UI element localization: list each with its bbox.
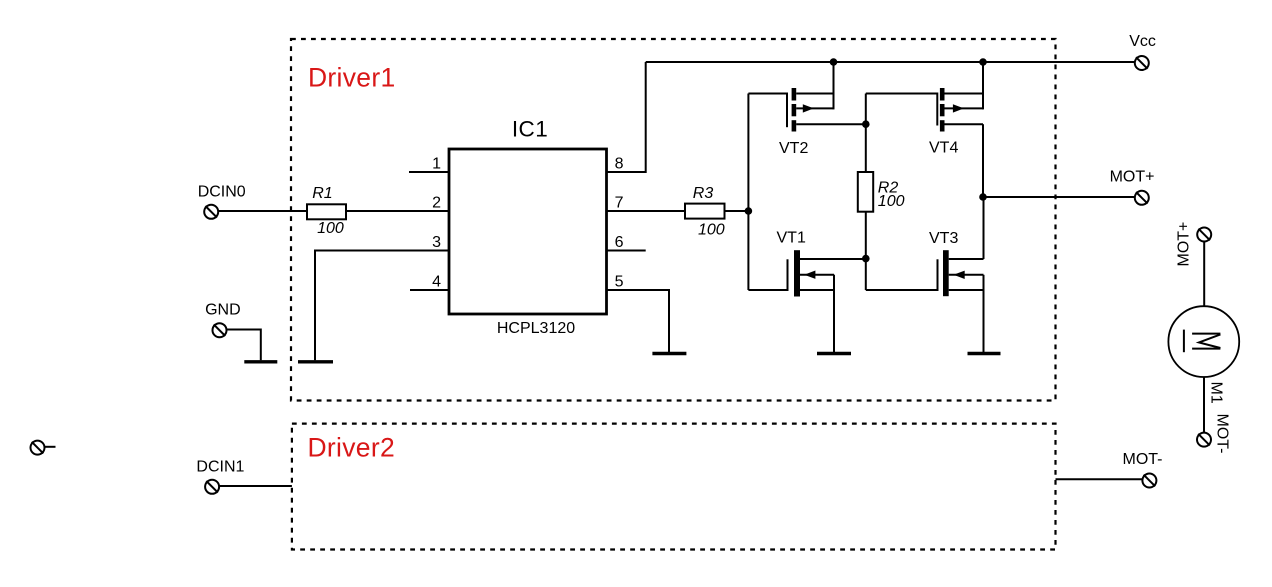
- svg-text:100: 100: [878, 193, 905, 210]
- wire MOT+ output: [983, 196, 1134, 198]
- resistor R1: [307, 204, 346, 219]
- pin 1 stub wire: [409, 171, 449, 173]
- transistor VT2 (P-MOSFET): [748, 62, 865, 132]
- pin 5 wire to ground: [607, 290, 670, 352]
- wire GND to ground: [227, 330, 261, 361]
- svg-text:R3: R3: [693, 185, 714, 202]
- wire Vcc rail: [646, 61, 1135, 63]
- terminal unconnected (left margin): [31, 441, 56, 455]
- pin 6 stub wire: [607, 250, 646, 252]
- ground below pin 3: [298, 360, 333, 363]
- svg-text:R1: R1: [312, 185, 332, 202]
- wire Driver2 to MOT- terminal: [1056, 478, 1143, 480]
- junction rail / VT2 source: [830, 58, 838, 66]
- svg-text:DCIN0: DCIN0: [198, 184, 246, 201]
- terminal GND: [213, 323, 227, 337]
- wire DCIN1 to Driver2: [219, 485, 292, 487]
- junction R3 output node: [745, 207, 753, 215]
- terminal MOT- (motor side, rotated): [1197, 433, 1211, 447]
- ground below GND terminal: [244, 360, 277, 363]
- pin 2 wire from R1: [346, 210, 449, 212]
- transistor VT1 (N-MOSFET): [748, 250, 865, 352]
- ground below pin 5: [652, 352, 686, 355]
- svg-text:Vcc: Vcc: [1129, 33, 1156, 50]
- pin 3 wire: [315, 251, 449, 361]
- svg-text:Driver1: Driver1: [308, 63, 396, 93]
- motor M1: [1168, 306, 1239, 377]
- svg-text:IC1: IC1: [512, 116, 548, 141]
- Driver2 dashed block border: [292, 424, 1056, 550]
- wire DCIN0 to R1: [218, 210, 307, 212]
- ground below VT3: [968, 352, 1001, 355]
- pin 7 wire to R3: [607, 210, 686, 212]
- wire VT4 gate riser: [865, 94, 867, 125]
- svg-text:GND: GND: [205, 302, 241, 319]
- wire MOT+ terminal to motor: [1203, 242, 1205, 306]
- svg-text:M1: M1: [1208, 382, 1225, 404]
- svg-text:VT2: VT2: [779, 140, 808, 157]
- svg-text:3: 3: [432, 234, 441, 251]
- op-coupler IC1 body: [449, 149, 607, 314]
- junction MOT+ output node: [979, 193, 987, 201]
- pin 8 wire to Vcc rail: [607, 62, 646, 172]
- resistor R3: [685, 204, 725, 219]
- svg-text:HCPL3120: HCPL3120: [497, 320, 575, 337]
- svg-text:MOT-: MOT-: [1123, 451, 1163, 468]
- junction R2 top node: [862, 120, 870, 128]
- svg-text:5: 5: [615, 274, 624, 291]
- terminal Vcc: [1135, 56, 1149, 70]
- svg-text:7: 7: [615, 195, 624, 212]
- node gate bus vertical: [747, 94, 749, 291]
- junction R2 bottom node: [862, 255, 870, 263]
- svg-text:1: 1: [432, 156, 441, 173]
- wire R3 to gate node: [725, 210, 749, 212]
- terminal MOT+ (motor side, rotated): [1197, 228, 1211, 242]
- junction rail / VT4 source: [979, 58, 987, 66]
- pin 4 stub wire: [410, 289, 449, 291]
- terminal MOT- (driver output): [1142, 474, 1156, 488]
- terminal MOT+: [1135, 191, 1149, 205]
- svg-text:VT4: VT4: [929, 140, 958, 157]
- svg-text:DCIN1: DCIN1: [196, 459, 244, 476]
- transistor VT4 (P-MOSFET): [866, 62, 983, 197]
- terminal DCIN0: [204, 205, 218, 219]
- terminal DCIN1: [205, 480, 219, 494]
- resistor R2: [858, 124, 873, 258]
- Driver1 dashed block border: [291, 39, 1056, 401]
- svg-text:VT1: VT1: [777, 230, 806, 247]
- svg-text:Driver2: Driver2: [308, 433, 396, 463]
- svg-text:4: 4: [432, 274, 441, 291]
- svg-text:100: 100: [698, 221, 725, 238]
- wire motor to MOT- terminal: [1203, 377, 1205, 432]
- svg-text:MOT+: MOT+: [1176, 222, 1193, 267]
- transistor VT3 (N-MOSFET): [866, 197, 984, 352]
- ground below VT1: [817, 352, 851, 355]
- svg-text:6: 6: [615, 234, 624, 251]
- svg-text:VT3: VT3: [929, 230, 958, 247]
- svg-text:8: 8: [615, 156, 624, 173]
- svg-text:100: 100: [317, 220, 344, 237]
- svg-text:MOT-: MOT-: [1214, 414, 1231, 454]
- svg-text:2: 2: [432, 195, 441, 212]
- svg-text:MOT+: MOT+: [1110, 169, 1155, 186]
